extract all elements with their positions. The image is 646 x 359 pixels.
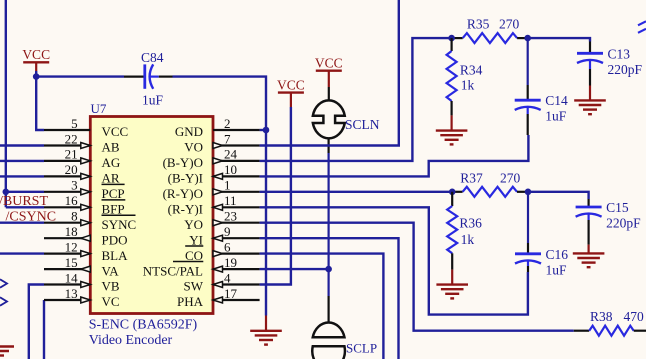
svg-text:C84: C84	[141, 50, 164, 65]
svg-text:18: 18	[65, 224, 78, 239]
wire (B-Y)O row up to R35	[260, 38, 452, 161]
wire VCC to SW pin	[260, 107, 291, 285]
svg-text:VCC: VCC	[22, 47, 50, 62]
pin 24 (B-Y)O (right stub)	[213, 160, 260, 162]
svg-text:NTSC/PAL: NTSC/PAL	[143, 263, 203, 278]
pin 18 PDO (left stub)	[44, 237, 90, 239]
ground (C13)	[589, 86, 591, 101]
wire YO row to R38	[260, 223, 574, 331]
pin 16 BFP (left stub)	[44, 206, 90, 208]
wire SCLN to SCLP / NTSC-PAL net	[328, 153, 330, 296]
pin 13 VC (left stub)	[44, 299, 90, 301]
svg-text:R35: R35	[467, 17, 490, 32]
svg-text:SYNC: SYNC	[102, 217, 137, 232]
pin 17 PHA (right stub)	[213, 299, 260, 301]
pin 1 (R-Y)O (right stub)	[213, 191, 260, 193]
pin 12 BLA (left stub)	[44, 253, 90, 255]
ground (R34)	[451, 115, 453, 130]
svg-text:VCC: VCC	[277, 77, 305, 92]
svg-text:8: 8	[71, 209, 78, 224]
svg-text:1uF: 1uF	[142, 93, 164, 108]
pin 20 AR (left stub)	[44, 175, 90, 177]
svg-text:10: 10	[224, 162, 237, 177]
svg-text:270: 270	[500, 170, 521, 185]
wire GND pin to junction	[260, 129, 266, 131]
wire YI row down to bottom edge	[260, 238, 399, 359]
wire AR row from left edge	[0, 175, 44, 177]
wire PCP row from vertical to pin stub	[6, 191, 44, 193]
svg-text:C13: C13	[608, 46, 631, 61]
pin 2 GND (right stub)	[213, 129, 260, 131]
svg-text:VB: VB	[102, 279, 120, 294]
svg-text:(B-Y)O: (B-Y)O	[163, 155, 203, 170]
svg-text:GND: GND	[175, 124, 203, 139]
wire AG row from left edge	[0, 160, 44, 162]
wire net /BURST vertical from top edge	[5, 0, 7, 207]
jumper SCLP body	[313, 323, 345, 338]
svg-text:VCC: VCC	[315, 56, 343, 71]
svg-text:24: 24	[224, 147, 238, 162]
svg-text:YO: YO	[184, 217, 203, 232]
wire BFP row elbow from vertical	[6, 206, 44, 208]
pin 4 SW (right stub)	[213, 283, 260, 285]
wire (B-Y)I row jog to C14	[260, 135, 529, 176]
jumper SCLN body	[313, 100, 345, 138]
ground (below IC)	[265, 316, 267, 331]
svg-text:21: 21	[65, 147, 78, 162]
svg-text:15: 15	[65, 255, 78, 270]
node R37 left	[449, 189, 456, 196]
wire C84 to GND pin node	[173, 77, 267, 130]
jumper SCLN top pin	[328, 87, 330, 100]
wire R35 to C13	[528, 38, 590, 41]
wire VC row elbow down to bottom edge	[43, 300, 45, 359]
wire R37 to C15	[528, 192, 589, 199]
ground (bottom left, partial)	[0, 345, 14, 347]
svg-text:470: 470	[624, 309, 645, 324]
svg-text:VA: VA	[102, 263, 120, 278]
svg-text:R37: R37	[460, 170, 483, 185]
pin 19 NTSC/PAL (right stub)	[213, 268, 260, 270]
svg-text:PCP: PCP	[102, 186, 125, 201]
svg-text:VCC: VCC	[102, 124, 129, 139]
wire (R-Y)O row to R37	[260, 191, 453, 193]
svg-text:19: 19	[224, 255, 237, 270]
svg-text:11: 11	[224, 193, 237, 208]
node NTSC/PAL junction	[325, 266, 332, 273]
off-sheet connector VC	[0, 297, 7, 305]
svg-text:U7: U7	[91, 101, 107, 116]
svg-text:23: 23	[224, 209, 237, 224]
pin 11 (R-Y)I (right stub)	[213, 206, 260, 208]
capacitor C14 1uF	[527, 38, 529, 85]
svg-text:22: 22	[65, 131, 78, 146]
node junction /BURST tap	[3, 189, 10, 196]
node GND pin junction	[263, 127, 270, 134]
svg-text:14: 14	[65, 270, 79, 285]
pin 14 VB (left stub)	[44, 283, 90, 285]
pin 6 CO (right stub)	[213, 253, 260, 255]
svg-text:/BURST: /BURST	[0, 194, 48, 209]
svg-text:(R-Y)O: (R-Y)O	[163, 186, 203, 201]
svg-text:C14: C14	[545, 93, 568, 108]
resistor fragment (top right, partial)	[638, 21, 646, 25]
pin 10 (B-Y)I (right stub)	[213, 175, 260, 177]
ground (R36)	[451, 270, 453, 285]
svg-text:R38: R38	[590, 309, 613, 324]
svg-text:PDO: PDO	[102, 232, 128, 247]
jumper SCLP top pin	[328, 296, 330, 323]
pin 23 YO (right stub)	[213, 222, 260, 224]
op-amp U7 S-ENC (BA6592F) video encoder IC body	[90, 117, 213, 314]
svg-text:AR: AR	[102, 171, 120, 186]
svg-text:1uF: 1uF	[546, 262, 568, 277]
capacitor C13 220pF	[589, 42, 591, 54]
svg-text:220pF: 220pF	[606, 216, 641, 231]
svg-text:270: 270	[499, 17, 520, 32]
svg-text:1k: 1k	[461, 78, 475, 93]
svg-text:5: 5	[71, 116, 78, 131]
svg-text:YI: YI	[189, 232, 203, 247]
svg-text:C16: C16	[546, 247, 569, 262]
svg-text:Video Encoder: Video Encoder	[89, 333, 173, 348]
pin 5 VCC (left stub)	[44, 129, 90, 131]
svg-text:AG: AG	[102, 155, 121, 170]
svg-text:1k: 1k	[461, 232, 475, 247]
pin 22 AB (left stub)	[44, 144, 90, 146]
node VCC junction	[33, 73, 40, 80]
capacitor C15 220pF	[587, 199, 589, 207]
svg-text:3: 3	[71, 178, 78, 193]
svg-text:(B-Y)I: (B-Y)I	[168, 171, 203, 186]
svg-text:S-ENC (BA6592F): S-ENC (BA6592F)	[89, 318, 198, 333]
svg-text:BLA: BLA	[102, 248, 129, 263]
capacitor C84 1uF	[124, 75, 145, 77]
capacitor C16 1uF	[527, 192, 529, 243]
wire VB row elbow down to bottom edge	[29, 285, 44, 359]
svg-text:1: 1	[224, 178, 231, 193]
svg-text:(R-Y)I: (R-Y)I	[168, 202, 203, 217]
wire SYNC row from left edge	[0, 221, 44, 223]
svg-text:7: 7	[224, 131, 231, 146]
wire VCC down to pin 5	[36, 71, 44, 130]
svg-text:SCLP: SCLP	[346, 340, 377, 355]
wire CO row down to bottom edge	[260, 254, 384, 359]
svg-text:2: 2	[224, 116, 231, 131]
svg-text:SCLN: SCLN	[345, 117, 380, 132]
pin 3 PCP (left stub)	[44, 191, 90, 193]
svg-text:CO: CO	[185, 248, 203, 263]
svg-text:9: 9	[224, 224, 231, 239]
wire NTSC/PAL pin to junction	[260, 268, 329, 270]
wire VCC to C84	[36, 75, 124, 77]
node R35 left	[448, 35, 455, 42]
pin 7 VO (right stub)	[213, 144, 260, 146]
svg-text:6: 6	[224, 239, 231, 254]
pin 9 YI (right stub)	[213, 237, 260, 239]
svg-text:12: 12	[65, 239, 78, 254]
wire BLA row from left edge	[0, 252, 44, 254]
svg-text:16: 16	[65, 193, 79, 208]
wire GND junction down to ground	[265, 130, 267, 316]
node R35 right	[524, 35, 531, 42]
wire VO row up to top edge	[260, 0, 399, 146]
pin 8 SYNC (left stub)	[44, 222, 90, 224]
svg-text:4: 4	[224, 270, 231, 285]
node R37 right	[525, 189, 532, 196]
svg-text:SW: SW	[184, 279, 204, 294]
pin 21 AG (left stub)	[44, 160, 90, 162]
svg-text:VO: VO	[184, 140, 203, 155]
pin 15 VA (left stub)	[44, 268, 90, 270]
wire (R-Y)I row to C16 bottom route	[260, 207, 528, 314]
svg-text:BFP: BFP	[102, 202, 125, 217]
off-sheet connector VB	[0, 279, 7, 287]
svg-text:C15: C15	[606, 200, 629, 215]
ground (C15)	[587, 245, 589, 254]
jumper SCLN bottom pin	[328, 139, 330, 153]
svg-text:1uF: 1uF	[545, 109, 567, 124]
svg-text:17: 17	[224, 286, 238, 301]
wire AB row from left edge	[0, 144, 44, 146]
svg-text:PHA: PHA	[177, 294, 204, 309]
svg-text:R34: R34	[460, 62, 483, 77]
svg-text:R36: R36	[459, 215, 482, 230]
svg-text:VC: VC	[102, 294, 120, 309]
svg-text:13: 13	[65, 286, 78, 301]
svg-text:220pF: 220pF	[608, 62, 643, 77]
svg-text:AB: AB	[102, 140, 120, 155]
svg-text:20: 20	[65, 162, 78, 177]
